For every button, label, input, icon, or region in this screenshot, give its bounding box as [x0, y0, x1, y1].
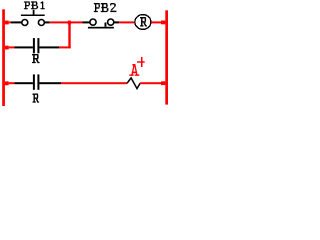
wire: rung3 long red segment to solenoid [61, 82, 127, 84]
wire: rung3 red segment solenoid to right rail [140, 82, 165, 84]
relay coil R letter [140, 17, 147, 27]
seal-in contact R bar left [33, 38, 35, 53]
pushbutton PB2 contact circle left [90, 19, 96, 25]
wire: rung1 black lead into PB2 [83, 21, 91, 23]
seal-in contact R bar right [37, 38, 39, 53]
relay contact R label (rung3) [33, 94, 40, 103]
relay contact R bar right (rung3) [37, 74, 39, 89]
pushbutton PB2 label [94, 3, 117, 12]
wire: rung1 red segment coil to right rail [151, 21, 165, 23]
node: T-junction of rung1 and seal-in branch [68, 21, 71, 25]
pushbutton PB2 actuator stem [105, 23, 107, 27]
wire: rung1 black stub after PB1 [45, 21, 50, 23]
wire: rung2 stub from left rail with junction tick [5, 46, 15, 50]
pushbutton PB1 actuator stem [33, 10, 35, 15]
wire: rung1 red segment PB1 to PB2 [50, 21, 83, 23]
wire: rung2 black lead into seal-in contact [15, 46, 33, 48]
node: rung1 tick at right rail [161, 21, 165, 25]
pushbutton PB1 contact circle right [38, 20, 44, 26]
wire: rung3 stub from left rail with junction tick [5, 81, 15, 85]
solenoid A+ zigzag [127, 78, 140, 89]
relay contact R bar left (rung3) [33, 74, 35, 89]
wire: rung1 black lead into PB1 [11, 21, 22, 23]
wire: vertical branch down to seal-in contact [68, 22, 70, 48]
right power rail L2 [165, 10, 168, 104]
pushbutton PB2 bridge bar (NC) [88, 27, 114, 29]
solenoid label superscript plus [137, 57, 145, 67]
pushbutton PB2 contact circle right [108, 19, 114, 25]
solenoid label A [129, 64, 139, 76]
wire: rung1 stub from left rail with junction tick [5, 21, 11, 25]
pushbutton PB1 label [24, 1, 45, 9]
left power rail L1 [2, 9, 5, 106]
wire: rung2 red segment to branch corner [59, 46, 70, 48]
node: rung3 tick at right rail [161, 81, 165, 85]
relay coil R circle [135, 15, 151, 30]
wire: rung1 black stub after PB2 [114, 21, 119, 23]
pushbutton PB1 contact circle left [22, 20, 28, 26]
wire: rung2 black segment after contact [39, 46, 59, 48]
wire: rung1 red segment to coil R [119, 21, 134, 23]
wire: rung3 black segment after contact [39, 82, 61, 84]
seal-in contact R label [32, 54, 40, 63]
pushbutton PB1 actuator bar [21, 15, 45, 17]
wire: rung3 black lead into contact [15, 82, 33, 84]
